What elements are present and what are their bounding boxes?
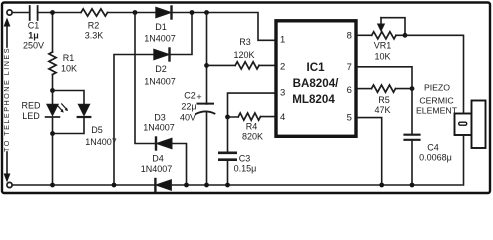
wire LED/D5 bottom link [53, 118, 85, 185]
svg-text:C3: C3 [239, 154, 251, 164]
svg-text:ML8204: ML8204 [292, 93, 335, 106]
wire pin7 [358, 67, 412, 89]
arrow up to phone line [4, 18, 11, 48]
svg-text:+: + [196, 92, 201, 102]
wire D2 branch left [114, 55, 154, 186]
node R5-pin7 [396, 88, 413, 90]
wire pin8 lead [358, 34, 372, 36]
node top C1-R1 [50, 10, 55, 15]
LED D6 red [46, 104, 68, 117]
svg-text:6: 6 [347, 85, 352, 96]
svg-text:1N4007: 1N4007 [144, 77, 176, 87]
wire R1 branch [52, 13, 54, 91]
svg-text:R4: R4 [246, 122, 258, 132]
svg-text:C2: C2 [184, 91, 196, 101]
node rail D3 [184, 183, 189, 188]
svg-text:R5: R5 [378, 95, 390, 105]
node LED top [50, 88, 55, 93]
svg-text:D1: D1 [155, 22, 167, 32]
svg-text:R3: R3 [239, 37, 251, 47]
svg-text:47K: 47K [374, 105, 390, 115]
svg-text:D5: D5 [91, 125, 103, 135]
svg-text:0.15μ: 0.15μ [234, 164, 257, 174]
svg-text:8: 8 [347, 31, 352, 42]
svg-text:BA8204/: BA8204/ [293, 77, 340, 90]
node rail C2 [204, 183, 209, 188]
svg-text:22μ: 22μ [181, 102, 196, 112]
node rail D2 branch [112, 183, 117, 188]
diode D4 [155, 179, 171, 191]
svg-text:RED: RED [21, 101, 41, 111]
wire R3 leads [207, 64, 275, 66]
svg-text:4: 4 [280, 112, 285, 123]
capacitor C2 electrolytic [196, 104, 215, 114]
svg-text:D3: D3 [154, 113, 166, 123]
svg-text:TO TELEPHONE LINES: TO TELEPHONE LINES [2, 47, 11, 152]
node C2 top [204, 10, 209, 15]
capacitor C3 [219, 153, 235, 160]
svg-text:LED: LED [22, 111, 40, 121]
svg-text:R2: R2 [88, 21, 100, 31]
svg-text:1N4007: 1N4007 [143, 123, 175, 133]
resistor R2 [81, 9, 108, 16]
node rail LED branch [50, 183, 55, 188]
node rail C3 [225, 183, 230, 188]
border frame [2, 3, 490, 194]
wire pin5 [358, 118, 382, 185]
wire D3 to rail [172, 144, 187, 186]
svg-text:7: 7 [347, 62, 352, 73]
wire C2 branch [206, 13, 208, 186]
terminal bottom-left [7, 182, 12, 187]
svg-text:250V: 250V [23, 41, 44, 51]
wire pin6 lead [358, 88, 372, 90]
node LED bottom [50, 131, 55, 136]
node VR1 wiper tie [403, 33, 408, 38]
wire top rail [12, 13, 274, 41]
wire D2 to top [170, 13, 193, 55]
svg-text:120K: 120K [233, 50, 254, 60]
potentiometer VR1 [372, 18, 405, 39]
diode D2 [154, 49, 170, 61]
svg-text:0.0068μ: 0.0068μ [419, 153, 452, 163]
wire D3 branch vertical [135, 13, 155, 144]
svg-text:1μ: 1μ [28, 31, 39, 41]
svg-text:1N4007: 1N4007 [141, 164, 173, 174]
node R3 tap [204, 63, 209, 68]
svg-text:ELEMENT: ELEMENT [416, 106, 458, 116]
wire C4 branch [411, 89, 413, 185]
diode D3 [156, 138, 172, 150]
svg-text:820K: 820K [242, 132, 263, 142]
resistor R5 [372, 85, 396, 92]
svg-text:1N4007: 1N4007 [144, 34, 176, 44]
node R4-C3 [225, 115, 230, 120]
svg-text:IC1: IC1 [306, 61, 325, 74]
resistor R4 [238, 113, 260, 120]
svg-text:10K: 10K [61, 64, 77, 74]
svg-text:CERMIC: CERMIC [419, 96, 453, 106]
arrow down to phone line [4, 152, 11, 183]
svg-text:PIEZO: PIEZO [424, 83, 450, 93]
wire bottom rail [12, 184, 462, 186]
wire LED/D5 top link [53, 91, 85, 105]
wire VR1 to piezo [405, 35, 464, 112]
resistor R3 [235, 62, 259, 69]
capacitor C4 [405, 135, 420, 140]
svg-text:5: 5 [347, 113, 352, 124]
wire C3 branch [227, 117, 229, 185]
svg-text:C4: C4 [427, 143, 439, 153]
wire pin3 loop [228, 93, 275, 117]
capacitor C1 [30, 6, 38, 20]
svg-text:R1: R1 [63, 53, 75, 63]
diode D1 [156, 7, 172, 19]
svg-text:10K: 10K [374, 52, 390, 62]
diode D5 [78, 104, 91, 117]
node rail C4 [410, 183, 415, 188]
svg-text:D4: D4 [152, 154, 164, 164]
svg-text:3.3K: 3.3K [85, 31, 104, 41]
svg-text:3: 3 [280, 88, 285, 99]
op-amp IC1 box [276, 21, 356, 137]
svg-text:1: 1 [280, 35, 285, 46]
svg-text:VR1: VR1 [374, 41, 392, 51]
svg-text:2: 2 [280, 62, 285, 73]
node rail pin5 [379, 183, 384, 188]
node D1 anode [133, 10, 138, 15]
terminal top-left [7, 10, 12, 15]
svg-text:1N4007: 1N4007 [85, 137, 117, 147]
svg-text:D2: D2 [155, 64, 167, 74]
svg-text:40V: 40V [180, 113, 196, 123]
piezo element [455, 101, 486, 186]
resistor R1 [49, 52, 56, 75]
node D1 cathode [190, 10, 195, 15]
svg-text:C1: C1 [28, 21, 40, 31]
